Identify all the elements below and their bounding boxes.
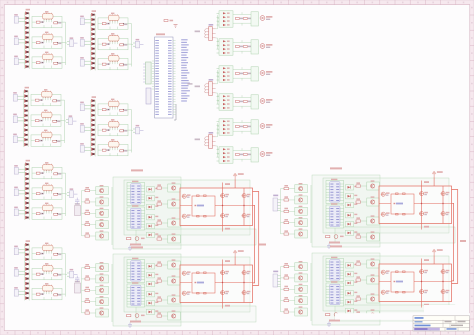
MCU top power parts xyxy=(164,20,168,22)
output group 3 xyxy=(195,119,273,163)
mask patch xyxy=(424,305,469,320)
MCU right net labels xyxy=(181,39,190,101)
power block L2 xyxy=(82,246,257,328)
LED cluster 6 xyxy=(14,240,77,300)
battery bus left pair xyxy=(253,192,259,286)
LED cluster 1 xyxy=(14,9,77,69)
feed connector R2 xyxy=(273,274,278,287)
power block R2 xyxy=(281,245,456,327)
LED cluster 5 xyxy=(14,160,77,220)
mcu aux label xyxy=(188,83,193,84)
title block xyxy=(413,316,470,331)
cap C-f1 xyxy=(75,198,79,204)
output group 1 xyxy=(195,11,273,55)
aux connector left xyxy=(146,88,151,104)
bulk cap C-e2 xyxy=(75,283,81,293)
bus net label xyxy=(259,244,266,246)
LED cluster 3 xyxy=(13,87,76,147)
LED cluster 4 xyxy=(80,96,143,156)
MCU bottom wire xyxy=(174,104,176,120)
cap C-f2 xyxy=(75,276,79,282)
ISP pins xyxy=(143,64,145,82)
LED cluster 2 xyxy=(80,10,143,70)
ISP connector left xyxy=(146,62,152,84)
power block R1 xyxy=(281,167,456,249)
output group 2 xyxy=(195,66,273,110)
MCU ref label xyxy=(156,33,165,35)
MCU U1 body xyxy=(155,37,174,118)
battery bus right pair xyxy=(452,190,458,284)
bulk cap C-e1 xyxy=(75,206,81,216)
MCU pin names xyxy=(155,40,171,115)
power block L1 xyxy=(82,169,257,251)
MCU pin stubs xyxy=(152,41,176,115)
feed connector R1 xyxy=(273,198,278,211)
